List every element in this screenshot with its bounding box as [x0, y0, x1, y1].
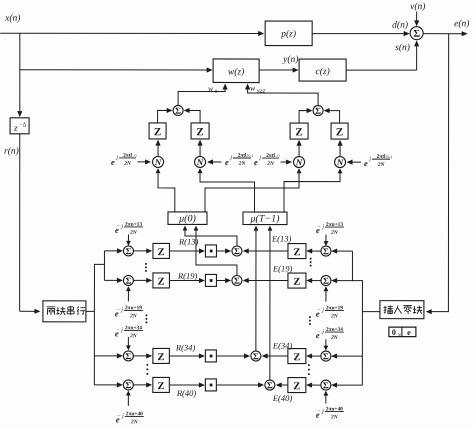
svg-text:Σ: Σ: [234, 246, 240, 256]
wire e(n) output: [423, 31, 468, 36]
wire R(34) row3: [169, 353, 205, 358]
wire right summer to Z row2: [306, 278, 321, 283]
wire row2 summer to mu(0): [194, 226, 237, 276]
wire conjugate to row4 summer: [216, 382, 264, 387]
ellipsis left rows3-4: [146, 364, 148, 375]
svg-text:e: e: [407, 328, 411, 337]
wire right bus: [352, 251, 362, 385]
block insert-zero (CJK): [380, 301, 424, 319]
wire N2 to Z2: [197, 140, 202, 156]
svg-text:e: e: [111, 157, 115, 167]
svg-text:Σ: Σ: [125, 380, 131, 390]
label E(13): [271, 234, 292, 244]
node r(n) label: [4, 146, 19, 157]
svg-text:2N: 2N: [330, 230, 339, 236]
block C(z) secondary path: [299, 59, 346, 81]
wire E(40) row4: [276, 382, 288, 387]
block delay Z row3 left: [153, 348, 170, 363]
wire E(34) row3: [262, 353, 288, 358]
svg-text:j: j: [115, 155, 118, 161]
svg-text:− j: − j: [317, 329, 324, 335]
wire branch to w(z) input: [20, 67, 213, 72]
wire right bus to row3 summer: [331, 353, 362, 358]
svg-text:−Δ: −Δ: [19, 122, 26, 128]
wire Z3 to sumR: [299, 108, 313, 123]
svg-text:Σ: Σ: [323, 351, 329, 361]
svg-text:Σ: Σ: [125, 276, 131, 286]
svg-text:Σ: Σ: [253, 351, 259, 361]
wire mu(T-1) to N2: [198, 168, 255, 212]
block delay Z1 accumulator: [149, 123, 166, 139]
wire sumL to w(z), node w_0: [178, 83, 228, 105]
svg-text:Z: Z: [293, 277, 300, 288]
svg-text:Z: Z: [158, 277, 165, 288]
wire row3 summer to mu(T-1): [253, 226, 258, 351]
block delay Z row4 left: [153, 377, 170, 392]
svg-text:− j: − j: [317, 308, 324, 314]
svg-text:E(19): E(19): [272, 264, 293, 274]
svg-text:μ(0): μ(0): [178, 213, 196, 224]
svg-text:j: j: [258, 155, 261, 161]
wire w(z) to c(z): [259, 67, 299, 72]
wire left bus to row2 summer: [104, 278, 123, 283]
wire row4 summer to mu(T-1): [267, 226, 272, 380]
node e(n) label: [454, 18, 469, 29]
node s(n) label: [395, 42, 410, 53]
summer row1 product: [232, 246, 242, 256]
svg-text:Z: Z: [293, 247, 300, 258]
svg-text:N: N: [196, 157, 204, 167]
label exp(j2pi t lN-1/2N) into N2: [207, 153, 253, 167]
wire R(19) row2: [169, 278, 205, 283]
wire R(13) row1: [169, 248, 205, 253]
summer S2 left weight: [173, 105, 183, 115]
svg-text:E(40): E(40): [272, 393, 293, 403]
svg-text:Σ: Σ: [175, 106, 181, 116]
wire left bus to row3 summer: [94, 353, 123, 358]
wire conjugate to row1 summer: [216, 248, 231, 253]
block P(z) primary path: [265, 21, 312, 46]
svg-text:2N: 2N: [129, 313, 138, 319]
multiplier N1: [153, 156, 164, 167]
svg-text:r(n): r(n): [4, 146, 19, 157]
wire R(40) row4: [169, 382, 205, 387]
svg-text:Z: Z: [295, 126, 302, 138]
label exp(j2pi t l0/2N) into N1: [111, 153, 151, 167]
wire right bus to row1 summer: [331, 248, 352, 253]
svg-text:2N: 2N: [129, 333, 138, 339]
node d(n) label: [392, 20, 408, 31]
label exp(j2pi t l0/2N) into N3: [254, 153, 292, 167]
wire N1 to Z1: [155, 140, 160, 156]
svg-text:y(n): y(n): [282, 54, 298, 65]
wire row1 summer to mu(0): [183, 226, 237, 246]
block delay Z row4 right: [288, 378, 306, 393]
block delay Z row3 right: [288, 349, 306, 364]
svg-text:N-1: N-1: [247, 153, 253, 158]
svg-text:x(n): x(n): [4, 13, 20, 24]
wire conjugate to row2 summer: [216, 278, 231, 283]
svg-text:0: 0: [278, 153, 280, 158]
svg-text:− j: − j: [116, 224, 123, 230]
label E(40): [272, 393, 293, 403]
summer row3 product: [251, 351, 261, 361]
label exp(j2pi t lN-1/2N) into N4: [347, 154, 393, 168]
svg-text:Z: Z: [154, 126, 161, 138]
ellipsis right rows3-4: [308, 364, 310, 375]
svg-text:− j: − j: [116, 307, 123, 313]
svg-text:Z: Z: [158, 381, 165, 392]
svg-text:N-1: N-1: [386, 154, 392, 159]
block delay Z2 accumulator: [191, 123, 209, 139]
block two-block-serial (CJK): [43, 301, 86, 322]
multiplier N3: [294, 157, 305, 168]
block delay Z4 accumulator: [331, 123, 348, 139]
svg-text:Σ: Σ: [323, 246, 329, 256]
wire v(n) into summer: [414, 12, 419, 27]
block W(z) adaptive filter: [213, 59, 259, 83]
svg-text:e: e: [364, 158, 368, 168]
wire Z2 to sumL: [184, 108, 201, 123]
svg-text:Σ: Σ: [126, 246, 132, 256]
label exp(-j(2pi n+34)/2N) row3 right: [316, 327, 344, 351]
label E(34): [272, 341, 293, 351]
block mu(T-1) step size: [243, 212, 287, 225]
svg-text:Σ: Σ: [267, 380, 273, 390]
summer S1 output error: [410, 27, 423, 40]
svg-text:Σ: Σ: [323, 380, 329, 390]
wire N3 to Z3: [296, 140, 301, 156]
wire right bus to row2 summer: [331, 278, 352, 283]
wire Z1 to sumL: [158, 108, 173, 123]
summer row4 left input: [123, 380, 133, 390]
wire branch junction down from x(n) line: [17, 33, 22, 117]
svg-text:2N: 2N: [238, 161, 247, 167]
label R(40): [176, 388, 197, 398]
svg-text:d(n): d(n): [392, 20, 408, 31]
svg-text:Σ: Σ: [234, 276, 240, 286]
summer row2 product: [232, 275, 242, 285]
label R(34): [175, 342, 196, 352]
svg-text:2N: 2N: [123, 161, 132, 167]
label exp(-j(2pi n+34)/2N) row3 left: [115, 325, 143, 350]
svg-text:2N: 2N: [330, 313, 339, 319]
svg-text:0: 0: [215, 90, 218, 95]
node v(n) label: [410, 1, 425, 12]
svg-text:E(34): E(34): [272, 341, 293, 351]
svg-text:N: N: [295, 157, 303, 167]
wire mu(0) to N3: [205, 168, 301, 212]
svg-text:v(n): v(n): [410, 1, 425, 12]
block delay Z row1 left: [153, 243, 170, 258]
svg-text:μ(T−1): μ(T−1): [249, 214, 280, 225]
block z^-delta delay: [10, 118, 29, 134]
svg-text:Z: Z: [196, 126, 203, 138]
svg-text:z: z: [13, 123, 18, 133]
node y(n) label: [282, 54, 298, 65]
svg-text:Z: Z: [293, 381, 300, 392]
svg-text:Z: Z: [336, 126, 343, 138]
wire E(19) row2: [243, 278, 288, 283]
wire E(13) row1: [243, 248, 288, 253]
svg-text:Z: Z: [293, 352, 300, 363]
label R(19): [177, 271, 198, 281]
wire insert-zero to right bus: [362, 311, 380, 313]
label R(13): [178, 236, 199, 246]
svg-text:2N: 2N: [130, 419, 139, 425]
svg-text:R(34): R(34): [175, 342, 196, 352]
block mu(0) step size: [168, 212, 207, 225]
wire mu(0) to N1: [156, 168, 175, 212]
block delay Z row1 right: [288, 244, 306, 259]
block delay Z row2 left: [153, 273, 170, 288]
svg-text:− j: − j: [317, 224, 324, 230]
svg-text:j: j: [229, 155, 232, 161]
node x(n) input label: [4, 13, 20, 24]
wire conjugate to row3 summer: [216, 353, 250, 358]
svg-text:R(19): R(19): [177, 271, 198, 281]
wire N4 to Z4: [337, 140, 342, 156]
svg-text:w: w: [208, 84, 213, 93]
block conjugate row2: [205, 274, 216, 286]
ellipsis right rows1-2: [310, 258, 312, 267]
svg-text:Σ: Σ: [125, 351, 131, 361]
svg-text:Z: Z: [158, 352, 165, 363]
svg-text:− j: − j: [116, 327, 123, 333]
svg-text:2N: 2N: [129, 230, 138, 236]
svg-text:0: 0: [392, 328, 396, 337]
ellipsis right rows2-3: [309, 316, 311, 325]
wire r(n) into serial block: [20, 309, 41, 314]
block conjugate row1: [205, 245, 216, 257]
summer row1 right input: [321, 246, 331, 256]
svg-text:2N: 2N: [266, 161, 275, 167]
block delay Z3 accumulator: [290, 123, 308, 139]
svg-text:NZZ: NZZ: [256, 90, 266, 95]
svg-text:e: e: [254, 157, 258, 167]
label E(19): [272, 264, 293, 274]
wire row1 left summer to Z: [133, 248, 152, 253]
label exp(-j(2pi n+19)/2N) row2 left: [115, 286, 143, 319]
wire row4 left summer to Z: [133, 382, 152, 387]
svg-text:N: N: [336, 157, 344, 167]
wire Z4 to sumR: [324, 108, 340, 123]
label exp(-j(2pi n+40)/2N) row4 left: [116, 390, 144, 425]
svg-text:R(40): R(40): [176, 388, 197, 398]
svg-text:0: 0: [135, 153, 137, 158]
block 0N|e vector: [389, 327, 416, 337]
svg-text:e(n): e(n): [454, 18, 469, 29]
svg-text:Z: Z: [158, 247, 165, 258]
multiplier N2: [195, 156, 206, 167]
wire mu(T-1) to N4: [284, 168, 342, 212]
svg-text:e: e: [225, 157, 229, 167]
wire right summer to Z row1: [306, 248, 321, 253]
summer row4 right input: [321, 380, 331, 390]
svg-text:p(z): p(z): [280, 29, 296, 40]
svg-text:s(n): s(n): [395, 42, 410, 53]
label exp(-j(2pi n+19)/2N) row2 right: [316, 286, 344, 319]
wire c(z) to summer, node s(n): [346, 40, 419, 70]
wire main input line x(n): [0, 31, 264, 36]
block delay Z row2 right: [288, 273, 306, 288]
block conjugate row4: [205, 379, 216, 391]
svg-text:E(13): E(13): [271, 234, 292, 244]
wire p(z) to summer, node d(n): [312, 31, 410, 36]
svg-text:w(z): w(z): [228, 66, 244, 77]
wire right summer to Z row4: [306, 382, 321, 387]
wire right bus to row4 summer: [331, 382, 362, 387]
multiplier N4: [335, 157, 346, 168]
label exp(-j(2pi n+40)/2N) row4 right: [316, 391, 344, 421]
svg-text:2N: 2N: [377, 162, 386, 168]
summer row2 right input: [321, 276, 331, 286]
wire left bus to row4 summer: [94, 382, 123, 387]
summer row1 left input: [123, 246, 133, 256]
svg-text:N: N: [154, 157, 162, 167]
summer row2 left input: [123, 275, 133, 285]
label exp(-j(2pi n+13)/2N) row1 right: [316, 222, 344, 246]
block conjugate row3: [205, 350, 216, 362]
wire sumR to w(z), node w_NZZ: [245, 84, 318, 106]
svg-text:2N: 2N: [330, 335, 339, 341]
label exp(-j(2pi n+13)/2N) row1 left: [115, 222, 143, 246]
wire left bus to row1 summer: [104, 248, 123, 253]
svg-text:R(13): R(13): [178, 236, 199, 246]
svg-text:2N: 2N: [330, 414, 339, 420]
svg-text:j: j: [368, 156, 371, 162]
wire right summer to Z row3: [306, 353, 321, 358]
svg-text:− j: − j: [117, 413, 124, 419]
wire e(n) feedback branch down to insert-zero block: [426, 34, 449, 315]
summer row4 product: [265, 380, 275, 390]
summer row3 right input: [321, 351, 331, 361]
wire left bus: [94, 251, 104, 385]
svg-text:Σ: Σ: [315, 106, 321, 116]
summer S3 right weight: [313, 106, 323, 116]
wire row3 left summer to Z: [133, 353, 152, 358]
svg-text:c(z): c(z): [315, 66, 329, 77]
wire r(n) vertical line: [19, 134, 21, 311]
ellipsis left rows1-2: [145, 263, 147, 272]
wire serial block to left bus: [86, 310, 95, 312]
svg-text:Σ: Σ: [413, 29, 420, 40]
svg-text:w: w: [250, 84, 255, 93]
ellipsis left rows2-3: [145, 314, 147, 323]
svg-text:Σ: Σ: [323, 276, 329, 286]
svg-text:− j: − j: [317, 409, 324, 415]
summer row3 left input: [123, 351, 133, 361]
wire row2 left summer to Z: [133, 278, 152, 283]
